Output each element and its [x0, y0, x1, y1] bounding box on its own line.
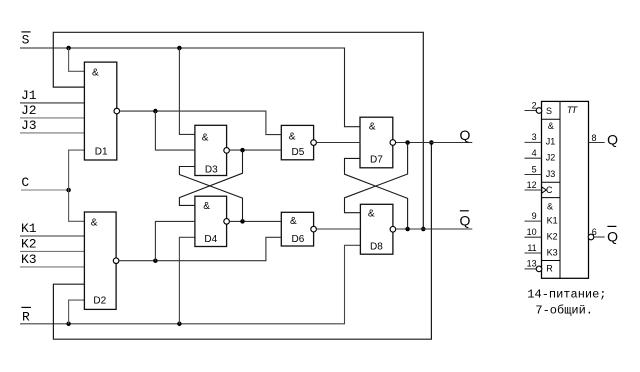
- IC label C: [546, 185, 553, 195]
- NAND gate D8: [360, 204, 395, 254]
- input label K2: [21, 236, 37, 251]
- wire D2 output to D6: [119, 237, 281, 260]
- NAND gate D5: [281, 125, 316, 159]
- svg-text:D3: D3: [205, 164, 218, 175]
- wire D1 output to D5: [120, 111, 282, 135]
- svg-text:&: &: [547, 202, 553, 212]
- svg-text:7-общий.: 7-общий.: [535, 303, 593, 317]
- svg-text:&: &: [202, 133, 209, 144]
- svg-text:8: 8: [592, 133, 597, 143]
- IC body: [542, 101, 589, 278]
- IC label ampersand J: [548, 121, 554, 131]
- wire D3 output cross to D4 input: [179, 150, 242, 205]
- wire J3: [20, 132, 84, 134]
- junction D1 output branch: [153, 109, 158, 114]
- svg-text:K1: K1: [21, 221, 37, 236]
- IC pin 5 stub: [525, 164, 542, 174]
- NAND gate D3: [195, 125, 230, 175]
- wire D5 output to D7: [316, 142, 360, 144]
- svg-text:6: 6: [592, 227, 597, 237]
- output label Q-bar: [460, 211, 471, 229]
- IC pin 6 label Q-bar: [607, 226, 618, 244]
- svg-text:&: &: [91, 218, 98, 229]
- wire D6 output to D8: [316, 228, 360, 230]
- svg-text:9: 9: [532, 211, 537, 221]
- svg-text:11: 11: [527, 243, 536, 253]
- wire D1 output to D3: [155, 111, 195, 150]
- svg-text:D4: D4: [204, 234, 217, 245]
- wire Q-bar output line: [396, 228, 473, 230]
- IC label J2: [546, 153, 556, 163]
- svg-text:D2: D2: [93, 296, 106, 307]
- wire S-bar net to D7 input: [20, 48, 360, 127]
- NAND gate D6: [281, 212, 316, 246]
- IC pin 8 label Q: [607, 131, 618, 147]
- junction Q-bar feedback on Q-bar line: [421, 227, 426, 232]
- svg-text:Q: Q: [460, 213, 471, 229]
- junction S-bar to D3 branch: [177, 46, 182, 51]
- wire K2: [20, 250, 84, 252]
- junction Q-bar cross branch: [405, 227, 410, 232]
- IC label K2: [547, 232, 558, 242]
- svg-text:3: 3: [532, 132, 537, 142]
- wire S-bar to D3: [179, 48, 195, 134]
- svg-text:D7: D7: [370, 155, 383, 166]
- wire Q-bar feedback loop to D1: [53, 32, 423, 229]
- svg-text:K3: K3: [547, 247, 558, 257]
- input label S-bar: [21, 32, 30, 48]
- svg-text:10: 10: [527, 227, 537, 237]
- IC section divider under S: [542, 118, 561, 120]
- svg-text:&: &: [548, 121, 554, 131]
- svg-text:D5: D5: [292, 147, 305, 158]
- junction Q feedback on Q line: [429, 140, 434, 145]
- input label K1: [21, 221, 37, 236]
- IC pin 3 stub: [525, 132, 542, 142]
- IC pin 8 stub: [589, 133, 605, 143]
- wire K1: [20, 235, 84, 237]
- wire C: [21, 189, 69, 191]
- wire D4 output to D6: [229, 220, 281, 222]
- wire C to D1 and D2: [69, 150, 85, 221]
- IC label R: [546, 264, 553, 274]
- IC pin 4 stub: [525, 148, 542, 158]
- svg-text:J3: J3: [21, 118, 37, 133]
- svg-text:&: &: [203, 201, 210, 212]
- wire R-bar to D2: [69, 300, 85, 324]
- wire R-bar to D4: [179, 237, 195, 323]
- svg-text:D6: D6: [292, 234, 305, 245]
- svg-text:&: &: [92, 68, 99, 79]
- svg-text:Q: Q: [460, 127, 471, 143]
- NAND gate D1: [84, 62, 119, 160]
- NAND gate D7: [360, 117, 396, 168]
- svg-text:&: &: [290, 216, 297, 227]
- wire S-bar to D1: [69, 48, 85, 71]
- svg-text:5: 5: [532, 164, 537, 174]
- svg-text:2: 2: [532, 100, 537, 110]
- junction node C: [66, 188, 71, 193]
- svg-text:13: 13: [527, 259, 537, 269]
- NAND gate D4: [195, 196, 230, 246]
- svg-text:S: S: [546, 106, 552, 116]
- svg-text:&: &: [369, 122, 376, 133]
- wire J2: [20, 117, 84, 119]
- IC label K1: [547, 215, 558, 225]
- IC inner divider: [559, 101, 561, 278]
- junction R-bar to D4 branch: [177, 322, 182, 327]
- svg-text:J1: J1: [546, 137, 556, 147]
- IC label J1: [546, 137, 556, 147]
- IC pin 11 stub: [525, 243, 542, 253]
- junction D4 output: [240, 219, 245, 224]
- IC pin 2 stub: [525, 100, 542, 113]
- svg-text:K2: K2: [21, 236, 37, 251]
- IC pin 12 stub: [525, 180, 542, 190]
- wire D4 output cross to D3 input: [179, 167, 242, 222]
- input label J1: [21, 88, 37, 103]
- wire D3 output to D5: [229, 149, 281, 151]
- svg-text:C: C: [546, 185, 553, 195]
- wire Q-bar cross to D7 input: [345, 158, 408, 229]
- input label R-bar: [21, 307, 31, 324]
- IC label TT: [567, 105, 579, 116]
- wire R-bar net to D8 input: [20, 245, 360, 323]
- wire J1: [20, 102, 84, 104]
- input label K3: [21, 252, 37, 267]
- wire K3: [20, 266, 84, 268]
- svg-text:S: S: [22, 32, 30, 47]
- svg-text:14-питание;: 14-питание;: [527, 288, 606, 302]
- svg-text:D1: D1: [95, 146, 108, 157]
- IC section divider under K3: [542, 260, 561, 262]
- IC label K3: [547, 247, 558, 257]
- svg-text:&: &: [289, 132, 296, 143]
- caption line 1: [527, 288, 606, 302]
- svg-text:Q: Q: [607, 131, 618, 147]
- wire D2 output to D4: [155, 221, 195, 260]
- input label J3: [21, 118, 37, 133]
- wire Q feedback loop to D2: [53, 143, 431, 340]
- wire Q output line: [396, 142, 473, 144]
- svg-text:J2: J2: [21, 103, 37, 118]
- svg-text:C: C: [21, 175, 29, 190]
- svg-text:K2: K2: [547, 232, 558, 242]
- svg-text:R: R: [22, 309, 30, 324]
- IC pin 13 stub: [525, 259, 542, 272]
- NAND gate D2: [84, 212, 118, 309]
- junction D2 output branch: [153, 258, 158, 263]
- svg-text:K3: K3: [21, 252, 37, 267]
- svg-text:J3: J3: [546, 169, 556, 179]
- input label J2: [21, 103, 37, 118]
- IC pin 12 dynamic input triangle: [542, 187, 546, 193]
- IC label ampersand K: [547, 202, 553, 212]
- svg-text:J2: J2: [546, 153, 556, 163]
- svg-text:&: &: [368, 209, 375, 220]
- svg-text:K1: K1: [547, 215, 558, 225]
- junction Q cross branch: [405, 140, 410, 145]
- junction S-bar to D1 branch: [66, 46, 71, 51]
- svg-text:D8: D8: [370, 242, 383, 253]
- svg-text:J1: J1: [21, 88, 37, 103]
- IC section divider under C: [542, 197, 561, 199]
- input label C: [21, 175, 29, 190]
- svg-text:12: 12: [527, 180, 537, 190]
- IC pin 6 stub: [588, 227, 605, 240]
- caption line 2: [535, 303, 593, 317]
- junction D3 output: [240, 148, 245, 153]
- IC pin 9 stub: [525, 211, 542, 221]
- IC section divider under J3: [542, 181, 561, 183]
- junction R-bar to D2 branch: [66, 322, 71, 327]
- svg-text:Q: Q: [607, 229, 618, 245]
- output label Q: [460, 127, 471, 143]
- IC label J3: [546, 169, 556, 179]
- wire Q cross to D8 input: [345, 143, 408, 213]
- IC pin 10 stub: [525, 227, 542, 237]
- IC label S: [546, 106, 552, 116]
- svg-text:4: 4: [532, 148, 537, 158]
- svg-text:R: R: [546, 264, 553, 274]
